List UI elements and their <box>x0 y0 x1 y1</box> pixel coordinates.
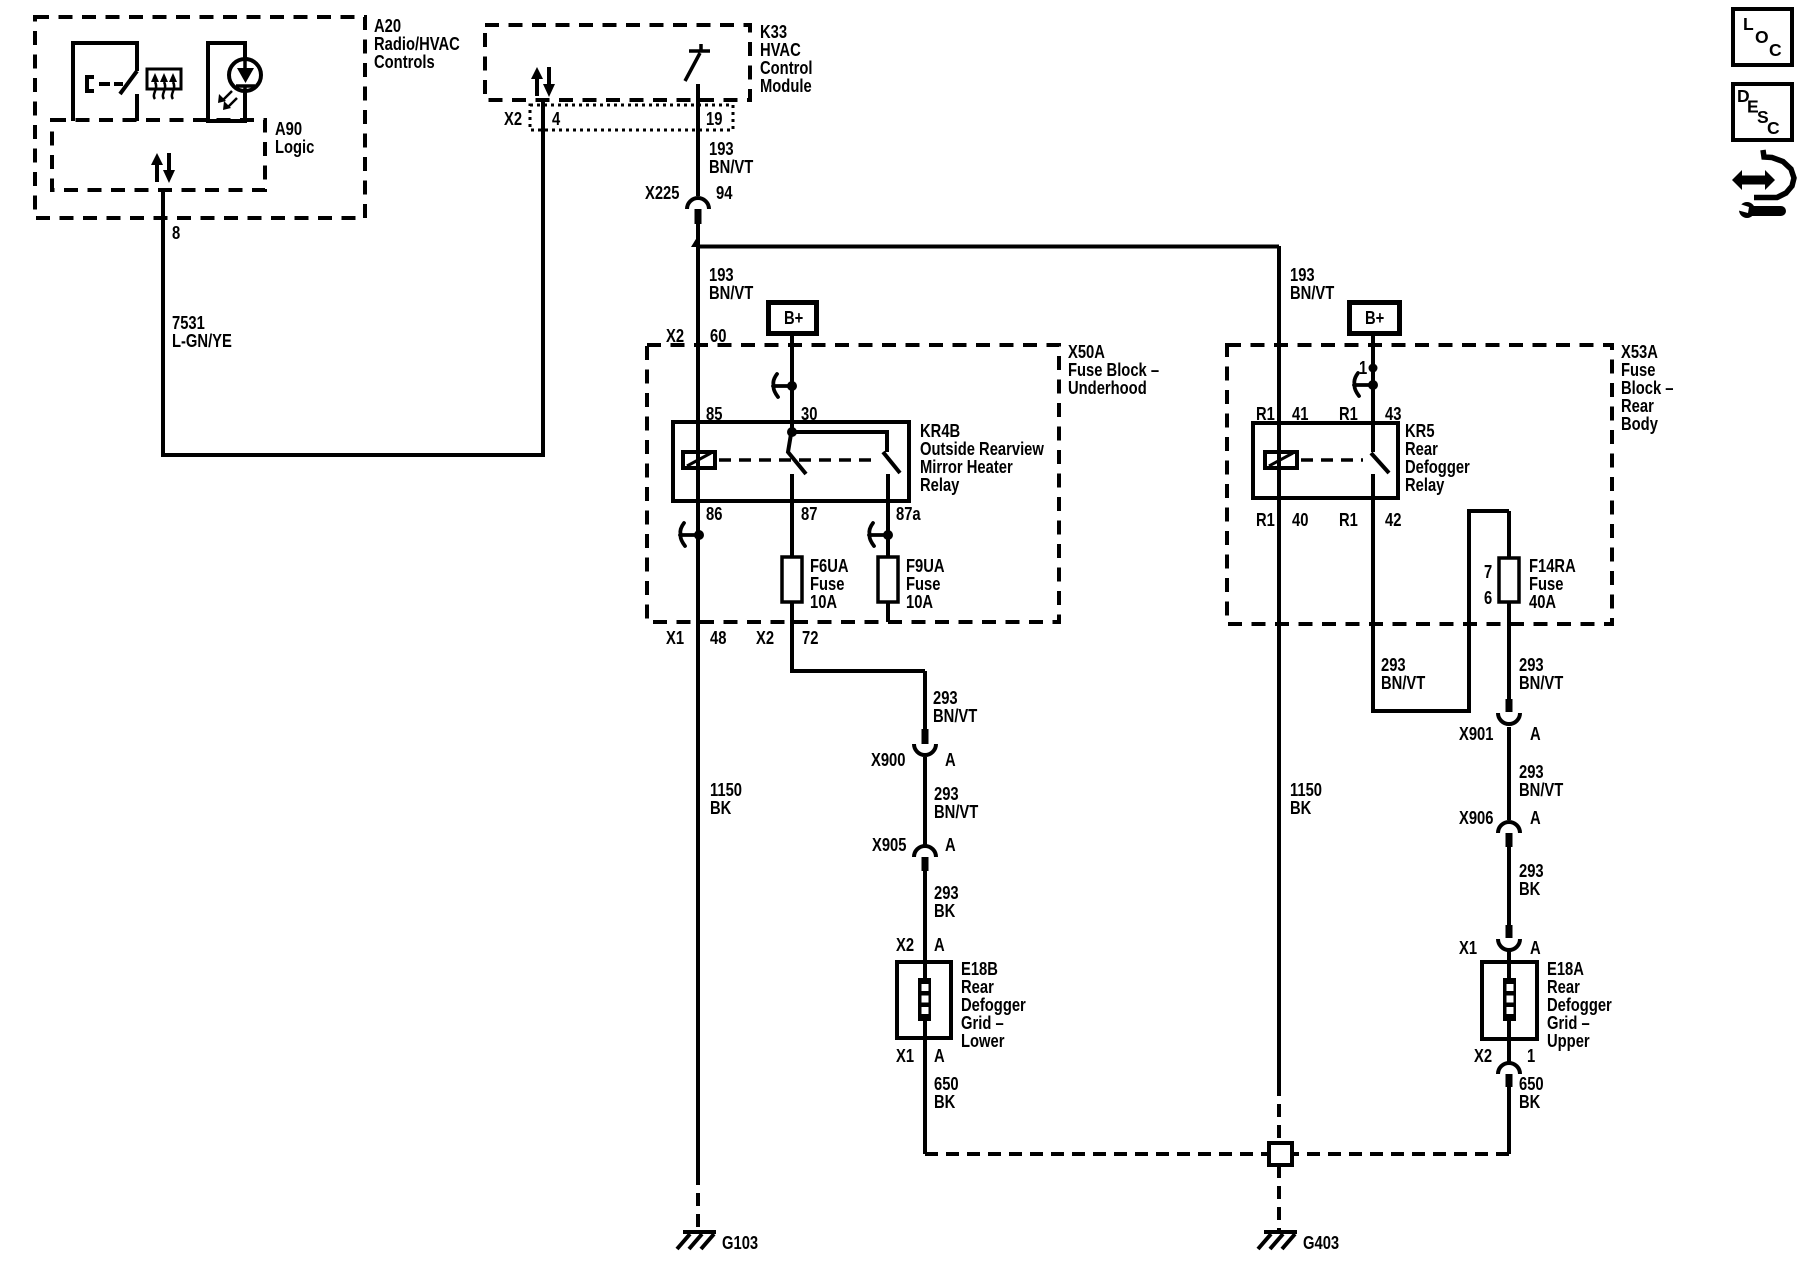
svg-text:O: O <box>1755 27 1769 47</box>
svg-text:C: C <box>1769 40 1782 60</box>
svg-text:L: L <box>1743 14 1754 34</box>
svg-text:C: C <box>1767 118 1780 138</box>
